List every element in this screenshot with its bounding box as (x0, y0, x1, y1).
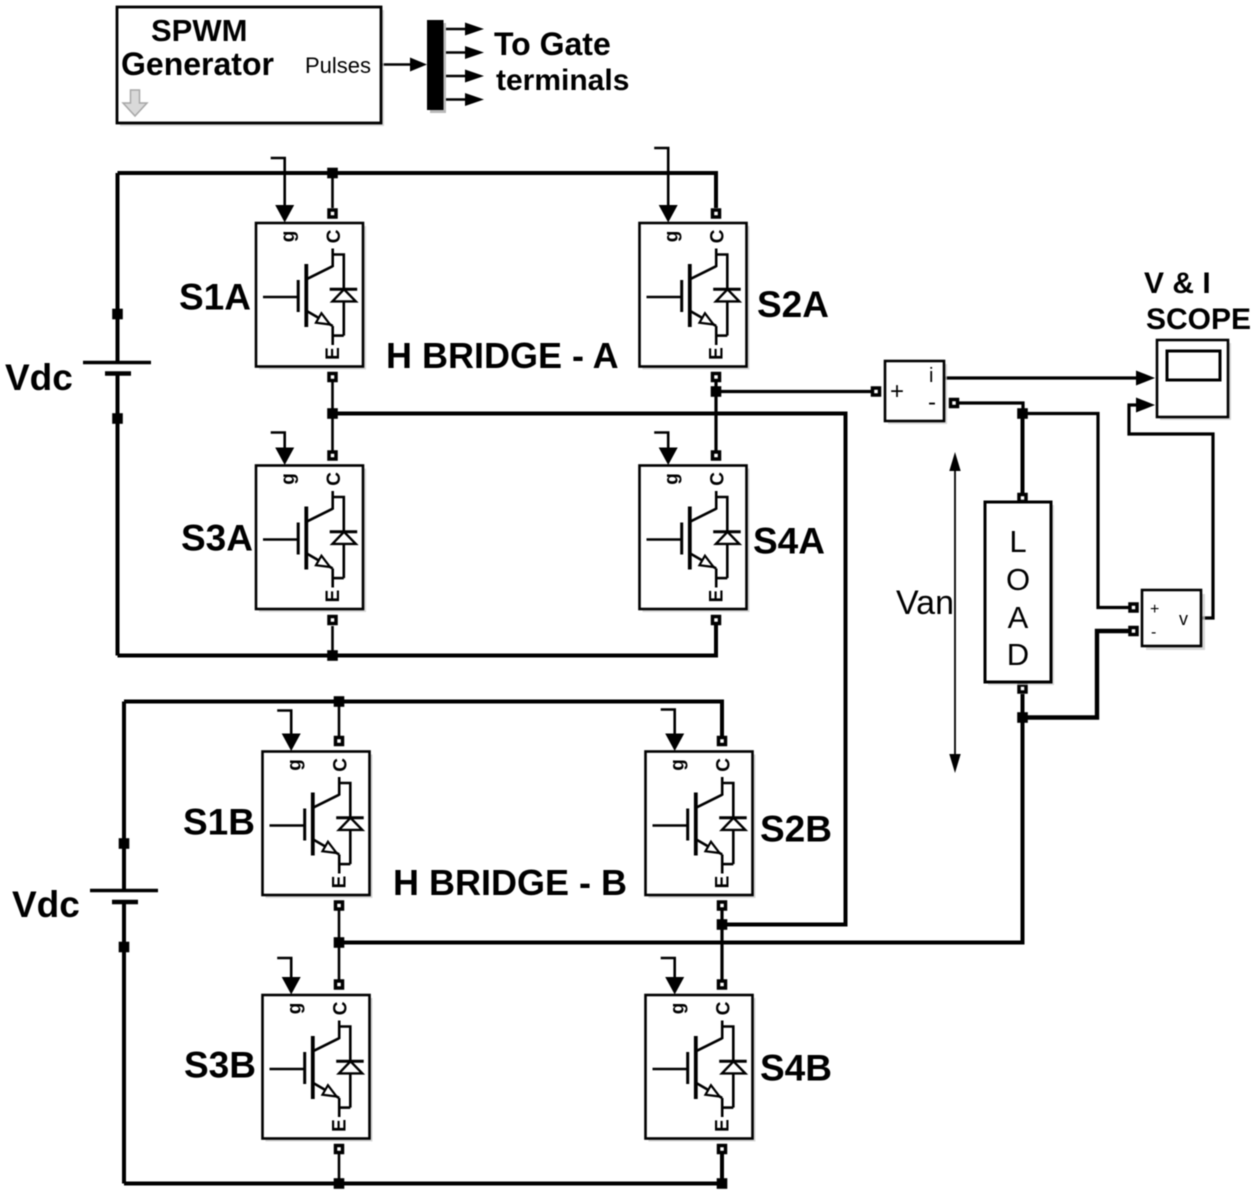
svg-text:SCOPE: SCOPE (1146, 303, 1251, 336)
svg-text:-: - (928, 389, 936, 416)
svg-text:To Gate: To Gate (494, 26, 611, 62)
svg-text:V & I: V & I (1144, 267, 1211, 300)
svg-text:D: D (1007, 637, 1029, 672)
svg-text:Pulses: Pulses (305, 53, 371, 78)
svg-text:S3A: S3A (181, 518, 253, 559)
svg-text:L: L (1009, 524, 1026, 559)
svg-text:SPWM: SPWM (151, 13, 247, 48)
svg-text:+: + (890, 378, 904, 405)
svg-text:Van: Van (896, 584, 954, 622)
svg-text:v: v (1179, 609, 1188, 629)
svg-text:H BRIDGE - B: H BRIDGE - B (393, 862, 627, 903)
svg-text:S1B: S1B (183, 802, 255, 843)
svg-text:Vdc: Vdc (5, 357, 73, 398)
svg-text:S3B: S3B (184, 1045, 256, 1086)
svg-text:Vdc: Vdc (12, 884, 80, 925)
svg-text:Generator: Generator (121, 46, 274, 82)
svg-text:+: + (1150, 601, 1159, 618)
svg-text:S1A: S1A (179, 277, 251, 318)
svg-text:S4A: S4A (753, 521, 825, 562)
svg-text:-: - (1151, 624, 1156, 641)
svg-text:O: O (1006, 562, 1030, 597)
svg-text:i: i (929, 365, 933, 387)
svg-text:H BRIDGE - A: H BRIDGE - A (386, 335, 619, 376)
svg-text:S2B: S2B (760, 809, 832, 850)
svg-text:A: A (1008, 600, 1029, 635)
svg-text:S2A: S2A (757, 284, 829, 325)
svg-text:S4B: S4B (760, 1048, 832, 1089)
svg-text:terminals: terminals (496, 64, 629, 97)
